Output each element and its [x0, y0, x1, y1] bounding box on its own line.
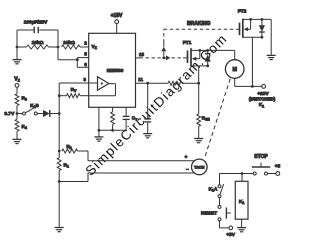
motor M	[225, 60, 244, 79]
node diode junction	[58, 112, 61, 115]
Vz terminal label	[14, 77, 20, 83]
wire pin 15 dashed	[136, 57, 164, 59]
switch K1A label	[209, 187, 218, 193]
svg-text:6: 6	[84, 62, 87, 67]
wire relay node to STOP	[242, 173, 253, 175]
node R2 junction	[58, 150, 61, 153]
switch K1B label	[30, 103, 39, 109]
wire Vz to R3	[16, 87, 18, 94]
svg-text:−: −	[186, 167, 189, 173]
diode FT1 body	[205, 50, 211, 66]
wire K1A to relay node	[220, 174, 243, 185]
resistor R4	[15, 114, 19, 132]
ground (RSH)	[194, 126, 203, 142]
node junction left	[16, 46, 19, 49]
resistor 10k (first)	[17, 45, 58, 49]
node pin15 junction	[162, 57, 165, 60]
wire relay top lead	[241, 174, 243, 182]
arrow up braking branch	[161, 29, 166, 58]
svg-text:M: M	[232, 67, 237, 73]
node pin11 cap junction	[146, 82, 149, 85]
node FT1 diode bottom	[206, 65, 209, 68]
wire FT1 drain rail	[200, 49, 235, 51]
wire pin5/pin6 loop	[77, 58, 88, 68]
svg-text:R1: R1	[64, 163, 69, 169]
amp input wire	[89, 82, 98, 84]
resistor R4 label	[22, 124, 27, 130]
transistor FT2	[240, 19, 262, 38]
pin 3 label	[84, 77, 87, 82]
resistor R2 label	[66, 144, 71, 150]
tach plus label	[185, 155, 188, 161]
node FT1 source / pin11	[197, 82, 200, 85]
pin 5 label	[84, 51, 87, 56]
wire motor top	[234, 50, 236, 59]
+5V terminal	[229, 226, 233, 230]
resistor R1	[57, 158, 61, 171]
svg-text:STOP: STOP	[254, 154, 268, 160]
node bottom bus left	[98, 129, 101, 132]
amp feedback loop	[89, 84, 116, 96]
svg-text:10kΩ: 10kΩ	[32, 40, 44, 46]
resistor RV label	[71, 87, 77, 93]
node FT2 diode top	[261, 18, 264, 21]
capacitor CT label	[132, 116, 138, 122]
resistor RV	[59, 94, 88, 98]
svg-text:K1A: K1A	[209, 187, 218, 193]
+5 label	[275, 164, 281, 170]
svg-text:RESET: RESET	[201, 210, 217, 216]
wire pin 11	[136, 82, 199, 84]
ground (FT2)	[267, 55, 276, 59]
wire bottom bus	[99, 129, 126, 131]
node FT1 drain	[198, 49, 201, 52]
watermark	[83, 31, 231, 179]
pin 6 label	[84, 62, 87, 67]
resistor RT (timing)	[111, 107, 115, 130]
diode FT2 body	[259, 19, 265, 37]
svg-text:+5: +5	[275, 164, 281, 170]
IC name label NE5560	[107, 68, 124, 73]
node +28V junction	[251, 85, 254, 88]
ground (bottom-left)	[55, 228, 64, 232]
resistor R1 label	[64, 163, 69, 169]
resistor 10k (second) value label	[63, 40, 75, 46]
wire tach minus	[88, 172, 194, 174]
wire FT2 source drop	[251, 37, 253, 86]
switch STOP contacts	[253, 172, 267, 175]
svg-text:(SWITCHED): (SWITCHED)	[249, 96, 276, 101]
wire +15V to IC	[116, 24, 118, 34]
svg-text:RSH: RSH	[202, 116, 210, 122]
ground (pin11 cap)	[143, 134, 152, 138]
tach minus label	[186, 167, 189, 173]
ground (below R4)	[13, 131, 22, 143]
svg-text:R3: R3	[22, 96, 27, 102]
wire RESET to +5V	[220, 221, 230, 228]
node Rv junction	[58, 94, 61, 97]
wire left bus vertical	[58, 96, 60, 227]
BRAKING label	[187, 21, 210, 27]
wire FT2 top rail	[251, 18, 272, 20]
resistor R (pin11 to source)	[168, 81, 182, 85]
node FT2 diode bottom	[261, 36, 264, 39]
wire STOP to +5	[268, 173, 276, 175]
wire braking dashed	[164, 28, 240, 30]
relay coil K1	[235, 181, 248, 219]
svg-text:FT2: FT2	[238, 8, 247, 14]
resistor 10k (first) value label	[32, 40, 44, 46]
wire FT2 ground branch	[270, 19, 272, 54]
pin 15 label	[139, 52, 144, 57]
svg-text:K1: K1	[259, 102, 264, 108]
svg-text:2: 2	[84, 41, 87, 46]
svg-text:K1B: K1B	[30, 103, 39, 109]
pin 11 label	[138, 77, 143, 82]
wire relay bottom lead	[241, 219, 243, 227]
switch RESET	[218, 205, 231, 220]
wire junction to pin5/6 loop	[58, 47, 77, 60]
wire left vertical	[16, 30, 18, 47]
svg-text:3.7V: 3.7V	[4, 111, 15, 117]
ground (top-left)	[13, 47, 22, 64]
mechanical link motor-tach (dashed)	[205, 79, 231, 158]
node FT1 diode top	[206, 49, 209, 52]
capacitor CT	[123, 107, 130, 130]
node bottom bus mid	[111, 129, 114, 132]
node 3.7V	[16, 112, 19, 115]
wire tach minus step	[59, 173, 88, 182]
+28V label	[249, 91, 276, 108]
resistor RSH	[197, 114, 201, 126]
RESET label	[201, 210, 217, 216]
capacitor 100uF/25V	[17, 27, 58, 47]
svg-text:VZ: VZ	[14, 77, 20, 83]
switch STOP button	[252, 163, 270, 167]
+15V supply label	[111, 13, 123, 19]
svg-text:NE5560: NE5560	[107, 68, 124, 73]
svg-text:15: 15	[139, 52, 144, 57]
transistor FT1	[188, 48, 208, 66]
diode D1	[37, 110, 59, 117]
wire pin 3	[59, 83, 88, 96]
svg-text:TACH: TACH	[194, 166, 205, 170]
Vz terminal	[15, 84, 19, 88]
svg-text:100µF/25V: 100µF/25V	[24, 20, 48, 26]
error amplifier triangle	[98, 77, 109, 91]
3.7V node label	[4, 111, 15, 117]
node relay top	[241, 172, 244, 175]
ground (relay)	[237, 228, 246, 232]
+28V terminal	[262, 85, 266, 89]
svg-text:5: 5	[84, 51, 87, 56]
tachometer TACH	[192, 159, 208, 175]
wire IC pin (bottom left)	[98, 107, 100, 130]
node pin5/6 loop junction	[76, 58, 79, 61]
resistor R3 label	[22, 96, 27, 102]
svg-text:FT1: FT1	[183, 40, 192, 46]
svg-text:BRAKING: BRAKING	[187, 21, 210, 27]
resistor RSH label	[202, 116, 210, 122]
node FT2 drain	[249, 18, 252, 21]
+5 terminal	[276, 172, 280, 176]
wire tach plus	[88, 160, 194, 162]
capacitor (pin11)	[144, 83, 151, 133]
ground (IC bottom)	[94, 130, 103, 141]
svg-text:RV: RV	[71, 87, 77, 93]
op-amp U1 NE5560 body	[89, 33, 136, 107]
wire R3 to node	[16, 106, 18, 114]
svg-text:3: 3	[84, 77, 87, 82]
arrow to FT1 gate	[164, 55, 188, 60]
svg-text:R4: R4	[22, 124, 27, 130]
wire FT1 source drop	[198, 66, 200, 114]
STOP label	[254, 154, 268, 160]
+5V label	[226, 232, 235, 238]
svg-text:11: 11	[138, 77, 143, 82]
pin Vz label inside IC	[92, 44, 98, 50]
svg-text:+: +	[185, 155, 188, 161]
wire K1A to RESET	[219, 198, 221, 205]
pin 2 label	[84, 41, 87, 46]
+15V terminal	[115, 20, 119, 24]
transistor FT2 label	[238, 8, 247, 14]
capacitor 100uF/25V value label	[24, 20, 48, 26]
switch K1B	[17, 108, 37, 115]
wire motor bottom	[235, 78, 262, 86]
resistor R2	[62, 149, 88, 161]
resistor R3	[15, 94, 19, 106]
svg-text:+5V: +5V	[226, 232, 235, 238]
svg-text:+15V: +15V	[111, 13, 123, 19]
node R1 junction	[58, 180, 61, 183]
switch K1A	[218, 184, 224, 198]
resistor 10k (second)	[62, 45, 89, 49]
node junction mid	[57, 46, 60, 49]
transistor FT1 label	[183, 40, 192, 46]
